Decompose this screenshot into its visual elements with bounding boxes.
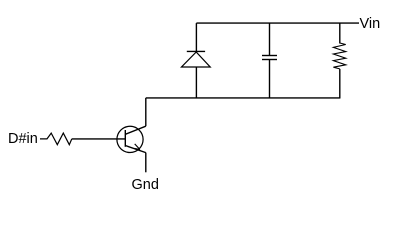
wire diode branch bottom	[195, 67, 197, 99]
svg-text:Vin: Vin	[360, 16, 381, 32]
transistor Q1 emitter arrow barb lower	[134, 148, 140, 149]
transistor Q1 emitter arrow barb upper	[135, 144, 140, 150]
capacitor C1 bottom plate	[262, 59, 277, 61]
transistor Q1 emitter lead	[125, 146, 146, 153]
resistor R2 coil	[333, 43, 345, 69]
wire top rail	[196, 22, 359, 24]
svg-text:D#in: D#in	[8, 131, 38, 147]
transistor Q1 base bar	[124, 130, 126, 147]
wire mid rail	[146, 97, 340, 99]
wire capacitor branch bottom	[269, 60, 271, 99]
resistor R1 zigzag	[40, 133, 72, 145]
wire collector riser	[145, 98, 147, 126]
wire diode branch top	[195, 23, 197, 51]
diode D1 triangle	[182, 52, 211, 67]
transistor Q1 collector lead	[125, 126, 146, 134]
wire resistor branch top	[339, 23, 341, 43]
capacitor C1 top plate	[262, 55, 277, 57]
wire base to transistor	[72, 138, 125, 140]
wire resistor branch bottom	[339, 69, 341, 99]
wire emitter riser	[145, 153, 147, 173]
transistor Q1 circle	[117, 126, 143, 152]
diode D1 cathode bar	[187, 50, 205, 52]
wire capacitor branch top	[269, 23, 271, 55]
svg-text:Gnd: Gnd	[132, 177, 159, 193]
